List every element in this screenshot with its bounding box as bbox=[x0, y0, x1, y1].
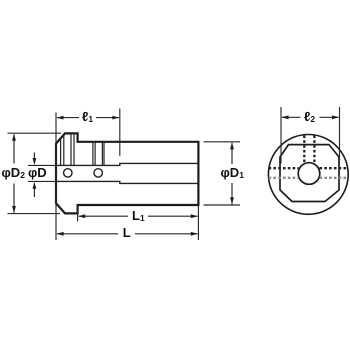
svg-text:φD: φD bbox=[28, 165, 47, 180]
svg-text:L: L bbox=[123, 225, 131, 240]
svg-text:φD2: φD2 bbox=[2, 165, 26, 180]
svg-text:φD1: φD1 bbox=[221, 165, 245, 180]
svg-text:ℓ1: ℓ1 bbox=[82, 109, 93, 124]
svg-text:L1: L1 bbox=[132, 208, 145, 223]
svg-text:ℓ2: ℓ2 bbox=[304, 109, 315, 124]
